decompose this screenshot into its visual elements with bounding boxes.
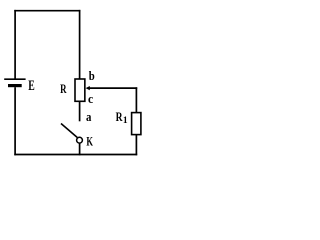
wire middle vertical below switch [79,143,81,155]
svg-text:b: b [89,68,95,83]
resistor R1 body [132,113,141,135]
rheostat R body [75,79,85,101]
wire left vertical lower [14,87,16,155]
wire middle vertical below R [79,101,81,122]
svg-text:K: K [86,133,93,148]
svg-text:a: a [86,109,92,124]
switch K pivot circle [77,137,83,143]
battery E long plate [4,78,25,80]
wire right vertical lower [135,134,137,155]
wire top horizontal [14,10,80,12]
wiper arrow wire horizontal [89,87,138,89]
wire right vertical upper [135,87,137,113]
svg-text:E: E [28,78,35,94]
wire bottom horizontal [14,154,137,156]
svg-text:R: R [60,82,67,96]
svg-text:R: R [116,110,123,124]
switch K blade [61,124,77,138]
svg-text:c: c [88,91,93,106]
wire left vertical upper [14,10,16,79]
battery E short plate [8,84,22,87]
svg-text:1: 1 [123,116,128,126]
wire middle vertical upper [79,10,81,80]
wiper arrowhead [86,86,90,90]
